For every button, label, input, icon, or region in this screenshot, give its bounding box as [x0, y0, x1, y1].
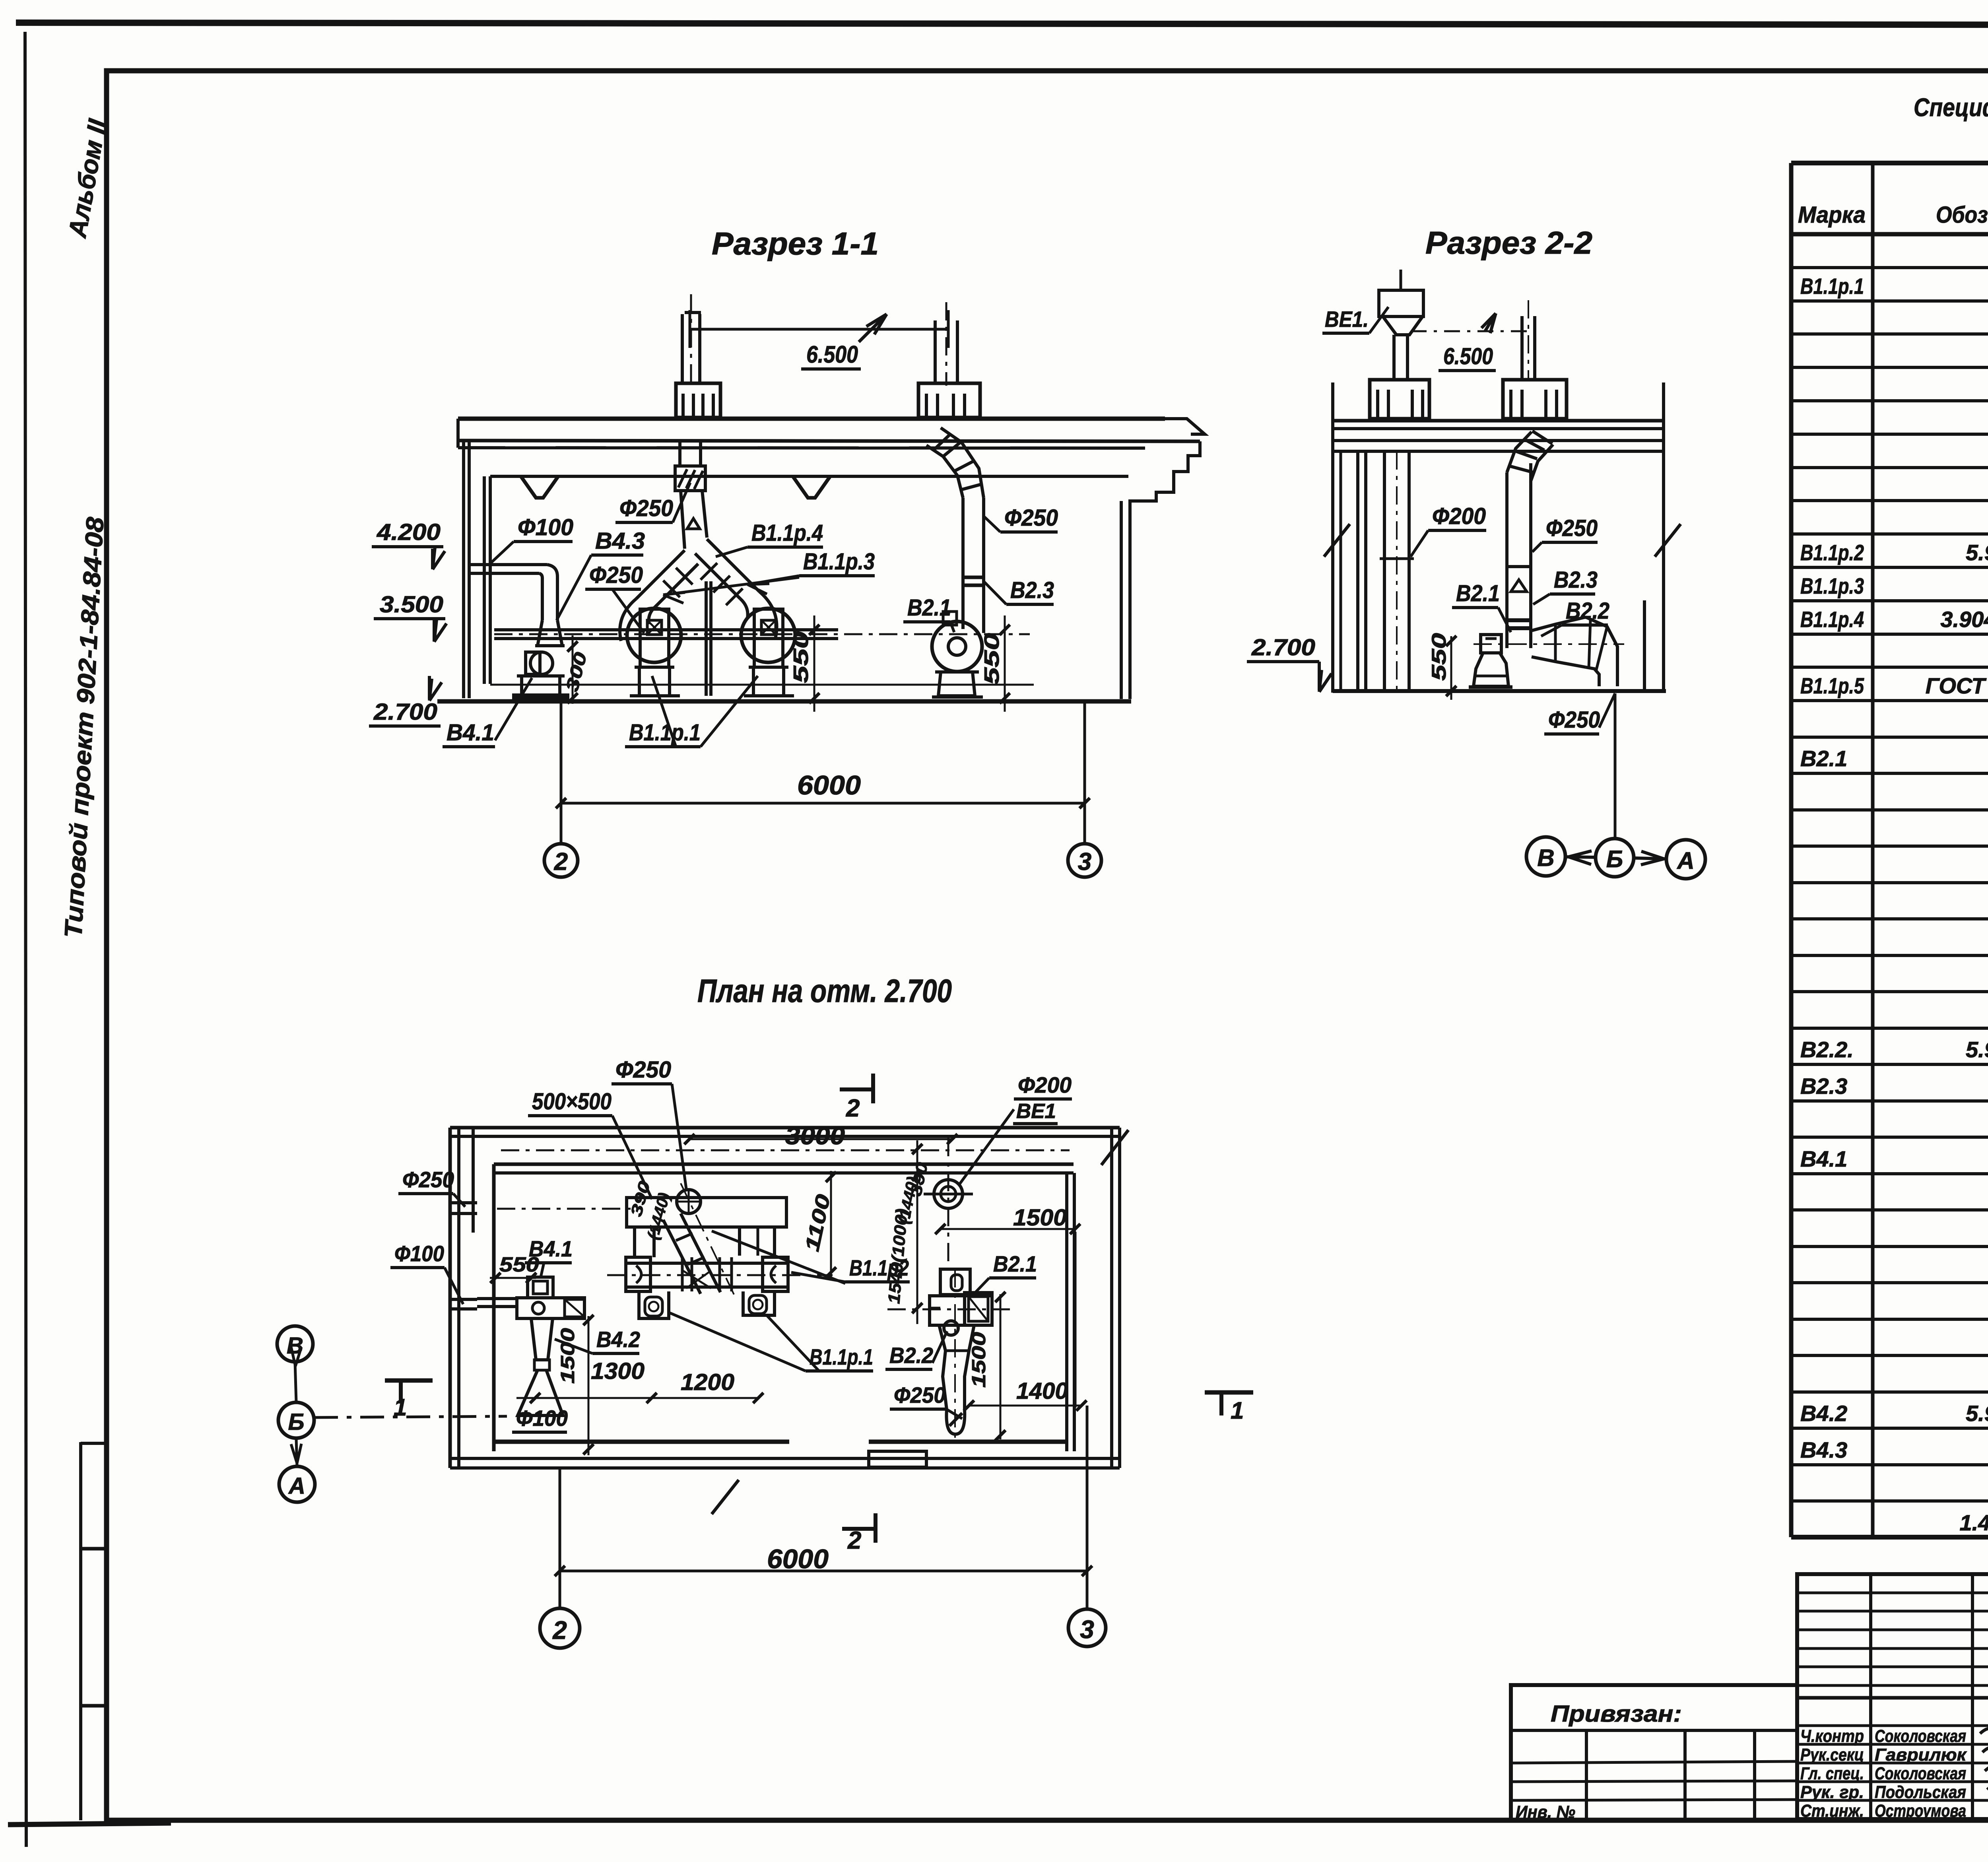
- svg-text:1500: 1500: [557, 1328, 579, 1384]
- duct joint mark upper: [1507, 565, 1531, 568]
- svg-text:В: В: [1537, 845, 1554, 871]
- svg-text:В1.1р.2: В1.1р.2: [1800, 540, 1864, 565]
- title block main horizontal: [1797, 1696, 1988, 1700]
- svg-text:В2.1: В2.1: [907, 595, 951, 621]
- svg-text:Ф250: Ф250: [619, 495, 673, 521]
- svg-text:Гаврилюк: Гаврилюк: [1875, 1745, 1967, 1765]
- fan B1.1r left unit: [627, 608, 681, 662]
- section 2-2 roof slab: [1331, 419, 1665, 423]
- svg-text:Ф250: Ф250: [1548, 707, 1600, 733]
- svg-text:В1.1р.1: В1.1р.1: [810, 1344, 873, 1369]
- line to axis B: [1614, 693, 1617, 837]
- plan left wall: [448, 1128, 452, 1468]
- privyazan rows: [1511, 1761, 1797, 1763]
- section 2-2 floor: [1333, 689, 1666, 693]
- svg-text:В4.2: В4.2: [596, 1327, 640, 1352]
- Y branch right: [707, 539, 759, 592]
- B2 duct elbow top: [926, 445, 963, 498]
- plan B1.1r bottom feet: [639, 1291, 669, 1318]
- svg-text:В1.1р.4: В1.1р.4: [1800, 607, 1864, 632]
- section 1-1 left wall column: [462, 441, 465, 698]
- plan axis 2 line: [559, 1468, 561, 1610]
- plan B2 circle: [944, 1321, 958, 1335]
- flex triangle mark: [687, 518, 700, 529]
- plan fi250 duct axis top: [497, 1208, 632, 1210]
- svg-text:Рук. гр.: Рук. гр.: [1800, 1782, 1864, 1802]
- svg-text:В2.1: В2.1: [1456, 581, 1500, 606]
- plan B2 unit top box: [940, 1269, 970, 1295]
- axis circle V: [1526, 837, 1565, 876]
- discharge elbow sec2: [1586, 617, 1617, 686]
- svg-text:В: В: [287, 1333, 303, 1359]
- svg-text:5.904-5: 5.904-5: [1966, 540, 1988, 565]
- svg-text:В1.1р.1: В1.1р.1: [1800, 274, 1864, 299]
- plan bottom wall: [494, 1440, 789, 1444]
- svg-text:Разрез 1-1: Разрез 1-1: [712, 226, 879, 261]
- svg-text:В4.3: В4.3: [595, 528, 645, 554]
- svg-text:3000: 3000: [785, 1122, 845, 1150]
- svg-text:Спецификация отопительно-венти: Спецификация отопительно-вентиляционных …: [1914, 93, 1988, 122]
- svg-text:В2.2.: В2.2.: [1800, 1037, 1854, 1062]
- duct 3500 axis: [494, 633, 1030, 635]
- privyazan verticals: [1585, 1730, 1588, 1820]
- svg-text:6000: 6000: [797, 770, 861, 800]
- dim 550 second: [1004, 615, 1006, 712]
- svg-text:1300: 1300: [591, 1358, 645, 1384]
- svg-text:Ф100: Ф100: [518, 515, 573, 540]
- axis line 3 sec1: [1083, 701, 1086, 844]
- section mark 1 right T1: [1205, 1390, 1253, 1395]
- svg-text:Ф250: Ф250: [615, 1057, 671, 1083]
- fan B1.1r right unit: [741, 608, 795, 662]
- wall break marks plan: [1101, 1130, 1128, 1165]
- svg-text:Ф250: Ф250: [1004, 505, 1058, 531]
- plan B4 flare: [518, 1370, 563, 1415]
- axis circle 3 sec1: [1068, 844, 1101, 877]
- main duct fi250 sec2: [1505, 472, 1508, 648]
- svg-text:5.904-5: 5.904-5: [1966, 1401, 1988, 1426]
- svg-text:Ф200: Ф200: [1432, 503, 1486, 529]
- section 2-2 left chimney box: [1370, 380, 1429, 419]
- section 2-2 right chimney duct: [1520, 316, 1524, 381]
- duct triangle mark: [1511, 580, 1527, 592]
- svg-text:Подольская: Подольская: [1875, 1782, 1966, 1802]
- svg-text:ВЕ1.: ВЕ1.: [1325, 307, 1369, 332]
- paper bottom-left dark dash: [8, 1823, 171, 1825]
- svg-text:2: 2: [552, 1616, 567, 1645]
- fi100 pipe elbow down: [547, 565, 557, 620]
- main duct elbow hatched: [1507, 432, 1532, 472]
- plan right guide line: [1074, 1232, 1077, 1408]
- spec table rows text: [1800, 240, 1988, 1535]
- section 1-1 right wall: [1120, 501, 1123, 699]
- svg-text:2: 2: [846, 1095, 860, 1122]
- plan axis circle 2: [540, 1608, 580, 1648]
- left margin strip column: [79, 1442, 82, 1820]
- svg-text:Марка: Марка: [1798, 202, 1866, 228]
- axis circle 2 sec1: [544, 844, 578, 877]
- title block small grid rows upper: [1797, 1592, 1988, 1594]
- plan B1.1r duct middle boxes: [681, 1257, 684, 1291]
- plan top wall axis: [501, 1149, 1070, 1151]
- axis line 2 sec1: [560, 701, 563, 844]
- svg-text:Ф250: Ф250: [894, 1382, 945, 1408]
- svg-text:500×500: 500×500: [532, 1089, 612, 1114]
- central duct fi250 upper: [678, 441, 681, 466]
- section 1-1 dim 6000: [561, 802, 1085, 805]
- spec table grid: [1791, 163, 1988, 1537]
- duct flex band B2.2: [1507, 618, 1531, 622]
- section mark 2 top: [840, 1087, 873, 1091]
- svg-text:В2.3: В2.3: [1800, 1074, 1847, 1099]
- svg-text:6.500: 6.500: [806, 341, 858, 368]
- plan B2 fan square: [965, 1293, 992, 1325]
- rotated dim 1500 left: [588, 1316, 590, 1455]
- plan VE1 circle: [934, 1180, 963, 1208]
- svg-text:В2.3: В2.3: [1010, 577, 1054, 603]
- svg-text:Ф100: Ф100: [516, 1406, 568, 1431]
- dim 550 first: [813, 615, 815, 712]
- svg-text:ГОСТ 8509-72*: ГОСТ 8509-72*: [1926, 673, 1988, 698]
- plan B1.1r duct flanges: [626, 1257, 650, 1291]
- axis circles ABV plan: [277, 1326, 313, 1362]
- plan B2 cone down: [939, 1325, 947, 1410]
- plan fi250 vertical circle: [677, 1190, 701, 1214]
- axis arrows VBA: [1567, 857, 1594, 857]
- plan B1.1r unit big rect: [627, 1198, 786, 1227]
- svg-text:В2.1: В2.1: [993, 1251, 1037, 1276]
- title block outer: [1797, 1574, 1988, 1819]
- Y left curve to fan: [620, 599, 636, 641]
- svg-text:А: А: [288, 1473, 305, 1499]
- plan B2 unit cross rect: [930, 1296, 992, 1325]
- rotated dim 1500 right: [1000, 1294, 1002, 1439]
- plan dim 6000: [560, 1570, 1087, 1573]
- svg-text:В4.3: В4.3: [1800, 1437, 1847, 1462]
- plan VE1 center line: [947, 1138, 949, 1267]
- svg-text:Ч.контр: Ч.контр: [1800, 1726, 1864, 1746]
- svg-text:В1.1р.1: В1.1р.1: [629, 720, 701, 746]
- central duct flex collar: [675, 466, 705, 491]
- axis circle A: [1666, 840, 1705, 879]
- axis ABV connectors: [295, 1362, 296, 1402]
- section mark 2 bottom: [842, 1527, 876, 1531]
- svg-text:Остроумова: Остроумова: [1875, 1801, 1966, 1821]
- title block small grid verticals: [1869, 1574, 1872, 1819]
- fan axis line sec2: [1474, 643, 1624, 645]
- plan top wall: [450, 1126, 1120, 1130]
- svg-text:Ст.инж.: Ст.инж.: [1800, 1801, 1864, 1821]
- rotated dim 1100: [830, 1171, 832, 1277]
- plan B2 center line: [954, 1269, 956, 1439]
- section 1-1 dim 6500 arrow: [859, 314, 887, 342]
- svg-text:Обозначение: Обозначение: [1936, 202, 1988, 228]
- privyazan header line: [1511, 1729, 1797, 1732]
- section 1-1 dim 6500 line: [690, 328, 948, 331]
- svg-text:550: 550: [980, 633, 1004, 685]
- svg-text:ВЕ1: ВЕ1: [1016, 1100, 1056, 1123]
- svg-text:В1.1р.4: В1.1р.4: [751, 520, 823, 546]
- svg-text:1: 1: [394, 1394, 407, 1421]
- svg-text:1: 1: [1231, 1397, 1244, 1424]
- svg-text:Ф250: Ф250: [589, 562, 643, 588]
- B2 duct vertical: [961, 498, 965, 629]
- svg-text:Разрез 2-2: Разрез 2-2: [1425, 225, 1592, 260]
- paper left thin line: [25, 32, 26, 1847]
- svg-text:План на отм. 2.700: План на отм. 2.700: [697, 973, 952, 1009]
- svg-text:Привязан:: Привязан:: [1551, 1701, 1682, 1727]
- fan V4.1 body: [530, 652, 553, 674]
- svg-text:Б: Б: [1606, 846, 1623, 872]
- B2 duct flex band: [963, 576, 984, 579]
- svg-text:1200: 1200: [681, 1369, 734, 1395]
- svg-text:6.500: 6.500: [1443, 344, 1493, 369]
- section mark 1 left: [385, 1379, 433, 1383]
- post between fans: [705, 581, 708, 696]
- section 1-1 roof beam V left: [521, 476, 558, 498]
- section 1-1 roof beam V mid: [793, 476, 830, 498]
- discharge cone sec2: [1532, 617, 1586, 631]
- svg-text:В1.1р.5: В1.1р.5: [1800, 673, 1864, 698]
- plan B1.1r axis line: [607, 1274, 833, 1276]
- svg-text:Инв. №: Инв. №: [1516, 1802, 1575, 1822]
- section 2-2 right chimney box: [1503, 380, 1567, 419]
- duct fi200 vertical: [1383, 451, 1386, 691]
- svg-text:550: 550: [790, 631, 813, 683]
- plan B2 horizontal axis: [887, 1309, 1010, 1311]
- svg-text:2.700: 2.700: [1251, 635, 1315, 660]
- deflector VE1 cone: [1383, 316, 1423, 335]
- svg-text:3.500: 3.500: [380, 592, 443, 617]
- svg-text:1.494-32: 1.494-32: [1959, 1510, 1988, 1535]
- svg-text:2.700: 2.700: [373, 699, 437, 725]
- svg-text:2: 2: [847, 1527, 861, 1554]
- svg-text:3: 3: [1080, 1615, 1094, 1644]
- rotated 390 1440 right: [916, 1140, 918, 1324]
- section 1-1 left chimney duct: [681, 314, 684, 385]
- fi100 funnel: [538, 620, 562, 646]
- section 1-1 ceiling line: [490, 475, 1128, 478]
- svg-text:Ф250: Ф250: [402, 1167, 454, 1192]
- svg-text:В1.1р.3: В1.1р.3: [803, 549, 875, 575]
- svg-text:В2.1: В2.1: [1800, 746, 1847, 771]
- section 2-2 left wall: [1331, 382, 1334, 693]
- svg-text:6000: 6000: [767, 1544, 829, 1574]
- central duct lower: [681, 491, 685, 549]
- svg-text:В1.1р.3: В1.1р.3: [1800, 573, 1864, 598]
- plan B1.1r duct horizontal: [626, 1263, 788, 1287]
- svg-text:В4.1: В4.1: [447, 720, 494, 746]
- signature squiggles: [1980, 1728, 1988, 1740]
- fan unit sec2 motor: [1481, 635, 1501, 653]
- svg-text:550: 550: [1428, 633, 1450, 681]
- svg-text:3.904-18 в.1: 3.904-18 в.1: [1940, 607, 1988, 632]
- svg-text:1400: 1400: [1016, 1378, 1068, 1404]
- spec table header text: [1798, 172, 1988, 230]
- plan diagonal duct: [681, 1214, 720, 1292]
- section 1-1 right chimney box: [918, 383, 980, 417]
- axis circle B: [1596, 839, 1634, 877]
- axis B line to plan: [314, 1416, 507, 1417]
- dim 550 sec2: [1450, 636, 1452, 700]
- plan B4 unit: [528, 1277, 553, 1298]
- section 1-1 roof cornice right: [1165, 419, 1205, 434]
- svg-text:В4.2: В4.2: [1800, 1401, 1847, 1426]
- fan unit sec2 body: [1474, 653, 1508, 686]
- plan B4 funnel: [531, 1318, 553, 1360]
- section 2-2 right wall: [1662, 382, 1665, 693]
- section 2-2 dim 6500: [1411, 330, 1534, 332]
- svg-text:5.904-5: 5.904-5: [1966, 1037, 1988, 1062]
- plan door step: [869, 1451, 926, 1467]
- plan axis 3 line: [1086, 1406, 1089, 1610]
- privyazan block outer: [1511, 1685, 1797, 1820]
- svg-text:Гл. спец.: Гл. спец.: [1800, 1764, 1864, 1783]
- svg-text:Соколовская: Соколовская: [1875, 1764, 1966, 1783]
- fan B2.1 unit section: [932, 621, 982, 672]
- deflector VE1 box: [1379, 290, 1423, 316]
- plan fi100 wall ticks: [452, 1298, 477, 1301]
- svg-text:В2.3: В2.3: [1554, 567, 1598, 593]
- plan right wall: [1065, 1173, 1068, 1451]
- Y branch left: [636, 550, 685, 599]
- svg-text:3: 3: [1078, 848, 1091, 876]
- svg-text:Б: Б: [288, 1409, 304, 1435]
- plan axis circle 3: [1068, 1609, 1106, 1646]
- title block signature rows: [1797, 1724, 1988, 1727]
- Y right curve to fan: [759, 592, 777, 639]
- svg-text:А: А: [1676, 847, 1694, 874]
- svg-text:В4.1: В4.1: [529, 1236, 573, 1261]
- svg-text:2: 2: [554, 848, 568, 876]
- section 1-1 left chimney box: [676, 383, 720, 417]
- paper top edge line: [16, 23, 1988, 25]
- plan B4 pipe from wall: [477, 1297, 518, 1300]
- svg-text:1500: 1500: [1013, 1205, 1067, 1231]
- svg-text:Ф200: Ф200: [1018, 1072, 1072, 1097]
- svg-text:Соколовская: Соколовская: [1875, 1726, 1966, 1746]
- svg-text:В2.2: В2.2: [889, 1343, 933, 1368]
- svg-text:Рук.секц: Рук.секц: [1800, 1745, 1864, 1765]
- section 1-1 right chimney duct: [934, 320, 937, 385]
- section 1-1 roof slab: [458, 417, 1165, 421]
- svg-text:1500: 1500: [969, 1332, 990, 1388]
- fi100 pipe horizontal: [469, 563, 547, 566]
- deflector VE1 duct: [1392, 335, 1396, 381]
- svg-text:Ф250: Ф250: [1546, 515, 1598, 541]
- svg-text:Ф100: Ф100: [394, 1241, 444, 1266]
- wall break marks sec2: [1324, 524, 1350, 557]
- svg-text:В4.1: В4.1: [1800, 1146, 1847, 1171]
- section 1-1 floor line: [437, 699, 1131, 704]
- svg-text:4.200: 4.200: [377, 519, 441, 545]
- duct 3500 horizontal: [494, 628, 838, 631]
- plan B1.1r legs: [633, 1227, 636, 1257]
- deflector VE1 stem top: [1400, 270, 1402, 291]
